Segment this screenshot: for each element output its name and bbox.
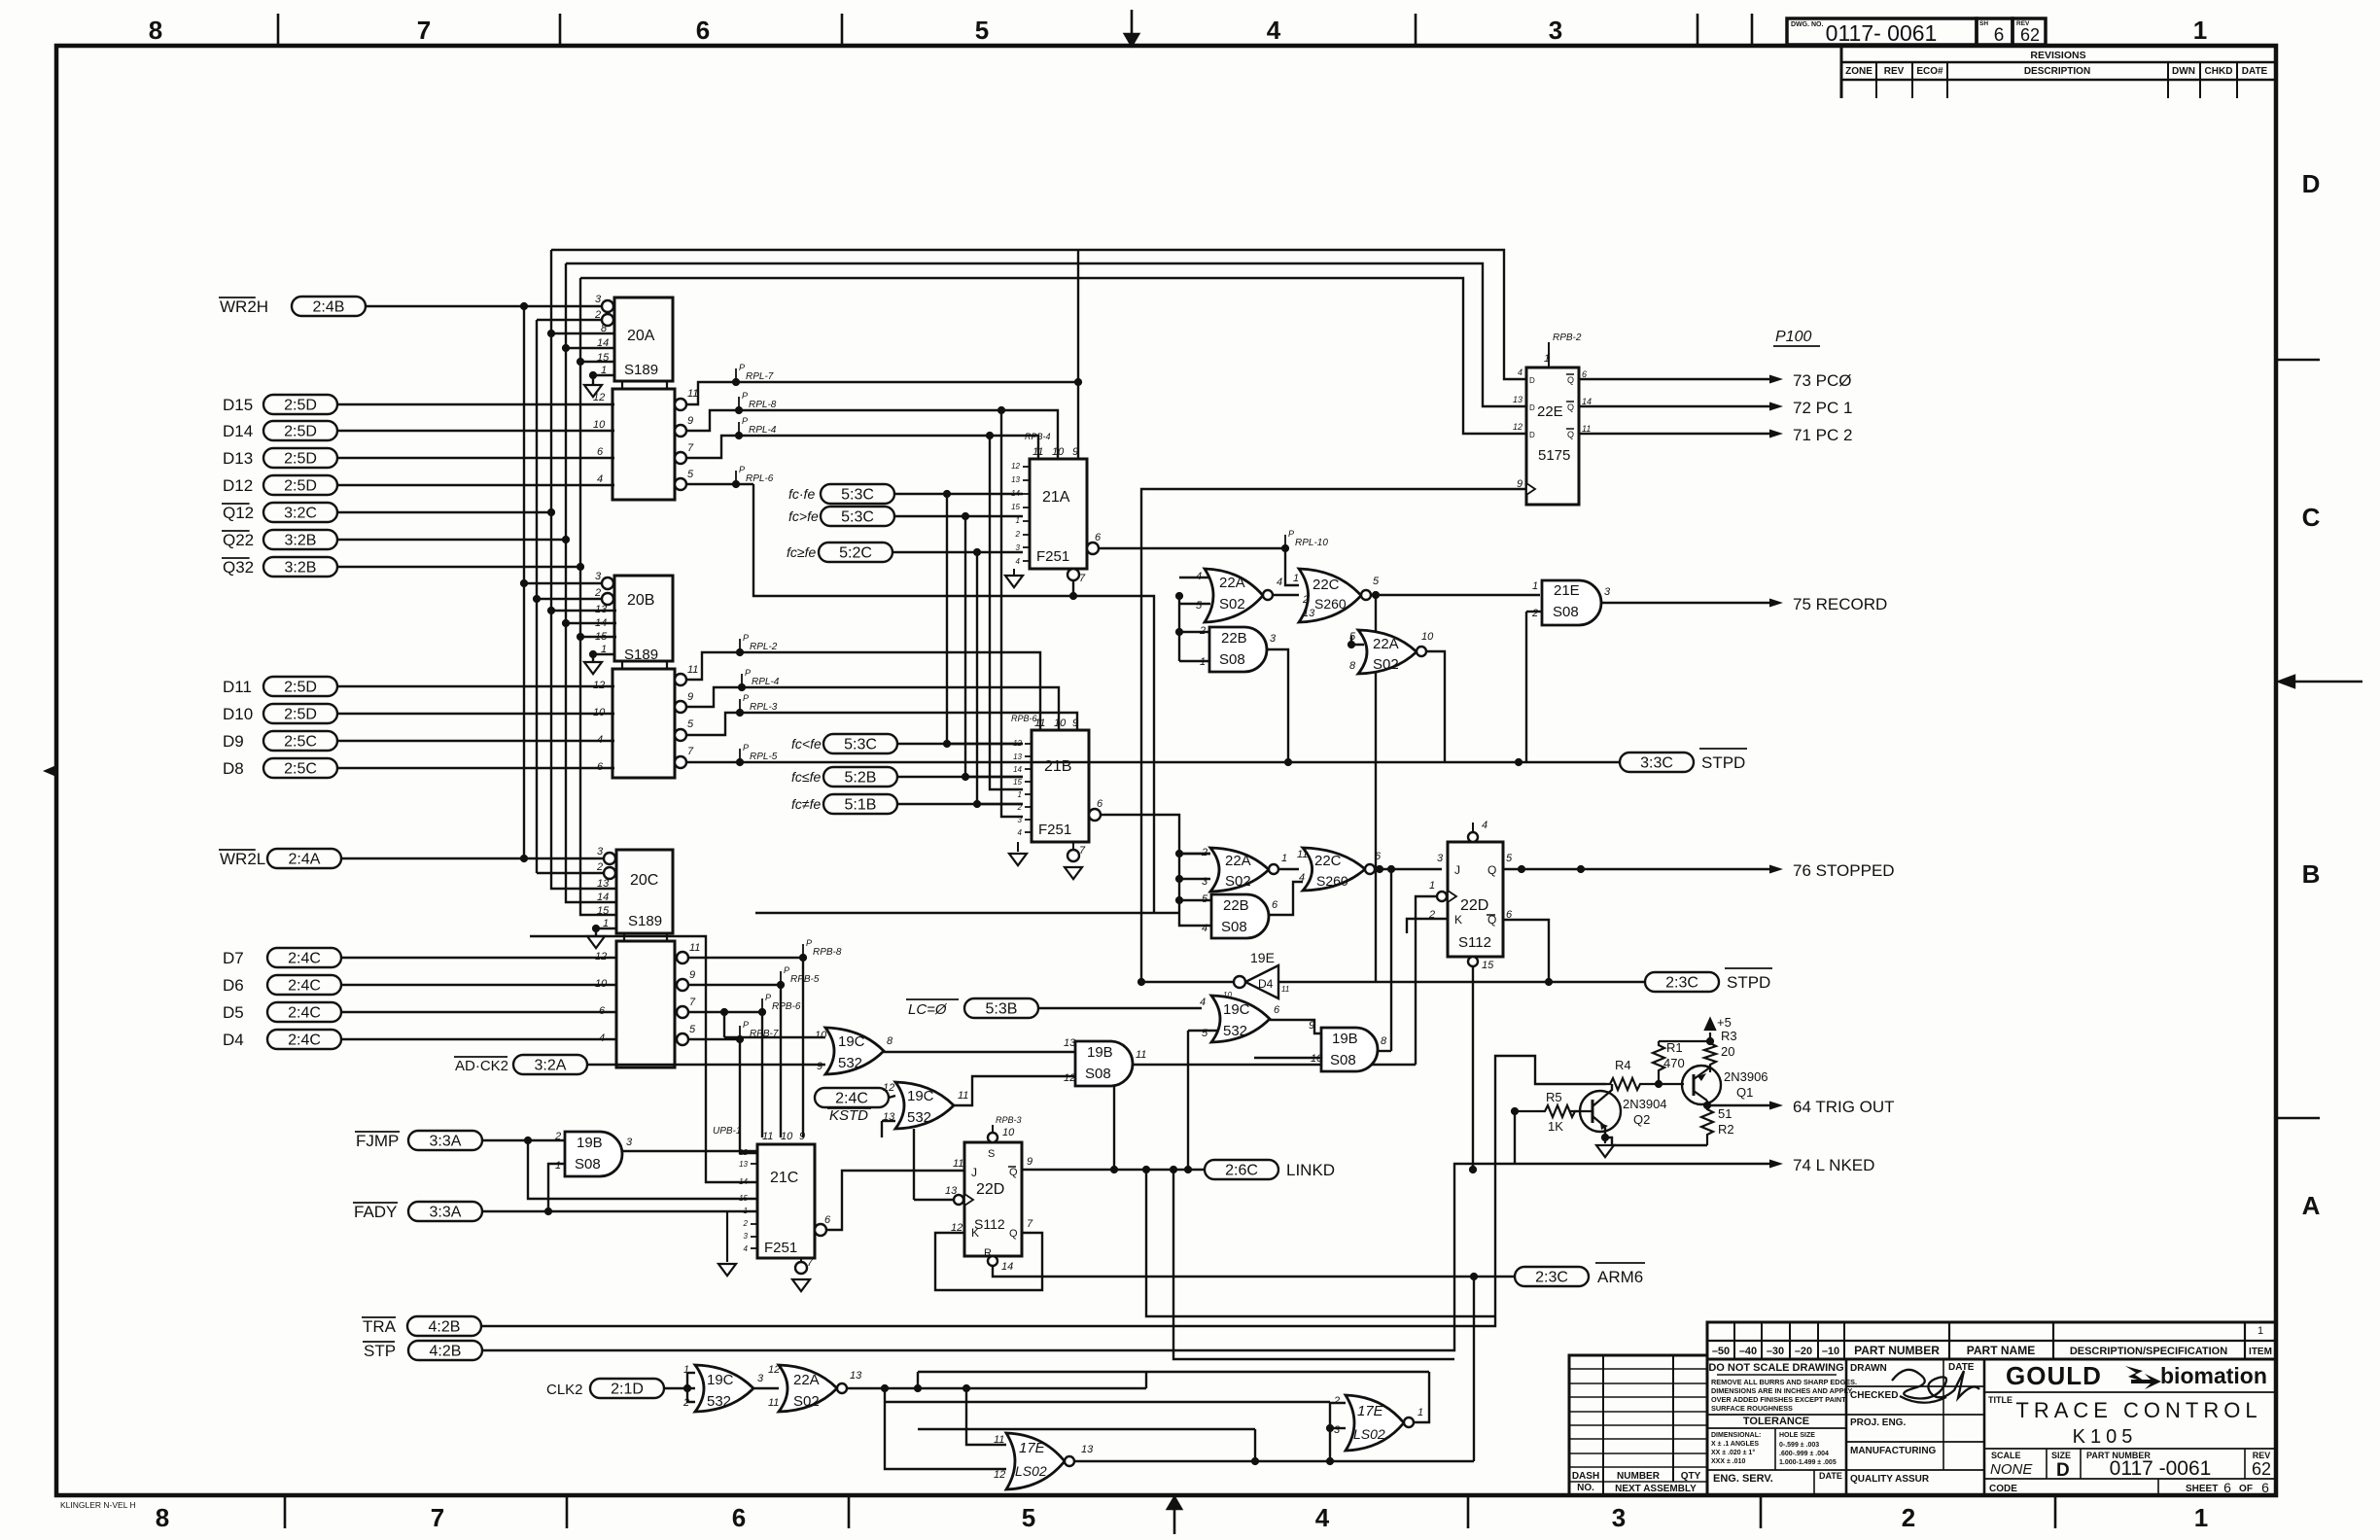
- svg-text:ZONE: ZONE: [1845, 66, 1872, 77]
- wire 22C output to 21E.1: [1371, 594, 1540, 596]
- svg-text:11: 11: [762, 1131, 773, 1142]
- svg-text:QTY: QTY: [1681, 1471, 1701, 1482]
- svg-text:15: 15: [739, 1194, 748, 1203]
- svg-text:4: 4: [1200, 997, 1206, 1008]
- svg-text:OVER ADDED FINISHES EXCEPT PAI: OVER ADDED FINISHES EXCEPT PAINT.: [1711, 1395, 1847, 1404]
- svg-text:KSTD: KSTD: [829, 1107, 868, 1124]
- svg-text:P: P: [806, 938, 812, 948]
- svg-text:4: 4: [744, 1244, 749, 1253]
- IC 22D S112 (upper flip-flop): [1448, 842, 1503, 957]
- svg-text:2:4C: 2:4C: [835, 1091, 868, 1107]
- 20C output pin 11 bubble: [677, 952, 688, 963]
- svg-text:74 L NKED: 74 L NKED: [1793, 1156, 1874, 1174]
- svg-text:62: 62: [2252, 1459, 2271, 1479]
- svg-text:11: 11: [953, 1158, 963, 1170]
- IC 20C S189 (upper box): [616, 850, 673, 933]
- svg-text:S02: S02: [793, 1393, 820, 1410]
- IC 21C F251: [757, 1144, 815, 1258]
- svg-text:DIMENSIONS ARE IN INCHES AND A: DIMENSIONS ARE IN INCHES AND APPLY: [1711, 1386, 1852, 1395]
- svg-text:4: 4: [1277, 577, 1282, 588]
- wire 22D K input elbow: [1407, 919, 1448, 933]
- svg-text:6: 6: [597, 446, 604, 458]
- svg-text:XXX ± .010: XXX ± .010: [1711, 1458, 1745, 1465]
- svg-text:13: 13: [1013, 752, 1022, 761]
- svg-text:11: 11: [687, 664, 698, 676]
- svg-text:20: 20: [1721, 1044, 1734, 1059]
- svg-text:Q: Q: [1487, 863, 1496, 877]
- svg-text:5175: 5175: [1538, 447, 1570, 464]
- svg-text:532: 532: [838, 1055, 862, 1071]
- svg-text:13: 13: [597, 878, 610, 890]
- svg-text:SCALE: SCALE: [1991, 1451, 2021, 1460]
- wire D4: [341, 1038, 616, 1040]
- output 71 PC2: [1579, 433, 1769, 435]
- svg-text:D4: D4: [1258, 977, 1274, 991]
- svg-text:4: 4: [597, 473, 603, 485]
- svg-text:5: 5: [687, 718, 694, 730]
- wire 19C#2.5 input: [1188, 1030, 1217, 1032]
- wire WR2H: [366, 305, 606, 307]
- wire 19B#1 output to 22D clock riser: [1133, 1064, 1416, 1066]
- wire ARM6 net from 22D#2.14: [993, 1266, 1515, 1277]
- title block: GOULD biomation logo: [1984, 1391, 2276, 1393]
- svg-text:2:5D: 2:5D: [284, 478, 317, 495]
- svg-text:S260: S260: [1316, 873, 1348, 889]
- svg-text:3: 3: [595, 571, 602, 582]
- svg-text:9: 9: [799, 1131, 805, 1142]
- svg-text:F251: F251: [1036, 548, 1069, 565]
- svg-text:3: 3: [626, 1137, 633, 1148]
- svg-text:13: 13: [1081, 1444, 1094, 1455]
- svg-text:D13: D13: [223, 449, 253, 468]
- svg-text:2:4C: 2:4C: [288, 978, 321, 995]
- svg-text:3:3C: 3:3C: [1640, 755, 1673, 772]
- wire 19E input: [1278, 981, 1376, 983]
- svg-text:NUMBER: NUMBER: [1617, 1471, 1661, 1482]
- svg-text:P: P: [784, 965, 789, 975]
- svg-text:7: 7: [687, 442, 694, 454]
- wire D15: [337, 403, 614, 405]
- svg-text:D9: D9: [223, 732, 244, 751]
- svg-text:5: 5: [687, 469, 694, 480]
- svg-text:3: 3: [1016, 543, 1021, 552]
- IC 21A F251: [1030, 459, 1087, 569]
- svg-text:8: 8: [1349, 660, 1356, 672]
- transistor Q2 2N3904: [1580, 1091, 1621, 1132]
- svg-text:+5: +5: [1717, 1015, 1732, 1030]
- svg-text:1: 1: [1532, 580, 1538, 592]
- wire run y=939 to gate row 2: [755, 912, 1179, 914]
- svg-text:9: 9: [689, 969, 695, 981]
- svg-text:2: 2: [1017, 803, 1023, 812]
- svg-text:NO.: NO.: [1577, 1483, 1594, 1493]
- svg-text:S02: S02: [1225, 873, 1251, 890]
- connector bubble 2:6C LINKD: [1205, 1160, 1278, 1179]
- svg-text:13: 13: [1303, 608, 1315, 619]
- gate 22A S02 (NOR) #2 row1: [1358, 630, 1417, 674]
- svg-text:DATE: DATE: [1948, 1362, 1975, 1373]
- IC 20C S189 (lower box): [616, 941, 675, 1067]
- svg-text:11: 11: [768, 1397, 779, 1409]
- wire 22A#2 output down to STPD rail: [1426, 651, 1445, 762]
- wire FADY branch to 19B#2.1: [548, 1164, 565, 1211]
- neck: [623, 933, 625, 941]
- connector bubble 2:4C / KSTD: [815, 1088, 889, 1107]
- svg-text:S08: S08: [1221, 919, 1247, 935]
- wire y1411 return rail: [918, 1371, 1429, 1373]
- wire 17E#1 output 13 rail to ARM6 riser: [1074, 1460, 1474, 1462]
- svg-text:0117- 0061: 0117- 0061: [1826, 20, 1938, 46]
- svg-text:11: 11: [958, 1090, 968, 1102]
- wire to 20C pin 2: [537, 872, 605, 874]
- svg-text:LC=Ø: LC=Ø: [908, 1001, 948, 1018]
- svg-text:SIZE: SIZE: [2051, 1451, 2071, 1460]
- svg-text:22D: 22D: [976, 1181, 1004, 1198]
- svg-text:TRACE CONTROL: TRACE CONTROL: [2015, 1398, 2261, 1422]
- svg-text:11: 11: [1582, 424, 1591, 434]
- wire bundle vertical 4 (Q22 net): [566, 263, 616, 902]
- svg-text:RPB-4: RPB-4: [1025, 432, 1051, 441]
- svg-text:2:5C: 2:5C: [284, 734, 317, 751]
- svg-text:5:3C: 5:3C: [844, 737, 877, 753]
- svg-text:3: 3: [744, 1232, 749, 1241]
- svg-text:J: J: [1454, 863, 1460, 877]
- wire 19C#3.13 input: [882, 1120, 895, 1122]
- svg-text:15: 15: [1482, 960, 1494, 971]
- svg-text:D14: D14: [223, 422, 253, 440]
- wire R5 left junction: [1515, 1110, 1541, 1112]
- svg-text:3: 3: [597, 846, 604, 857]
- svg-text:3:2A: 3:2A: [535, 1058, 567, 1074]
- svg-text:F251: F251: [764, 1240, 797, 1256]
- svg-text:7: 7: [1079, 845, 1086, 857]
- wire 22A row2 out: [1278, 868, 1299, 870]
- title block: drawing number box 0117-0061 SH 6 REV 62: [1787, 18, 1977, 45]
- wire Q32: [337, 566, 580, 568]
- svg-text:2:5D: 2:5D: [284, 424, 317, 440]
- svg-text:2: 2: [1428, 909, 1435, 921]
- svg-text:DATE: DATE: [2242, 66, 2268, 77]
- svg-text:RPL-7: RPL-7: [746, 371, 774, 382]
- svg-text:4: 4: [1518, 367, 1522, 377]
- 20C pin 2 input bubble: [604, 867, 615, 879]
- connector bubble 2:3C STPD: [1645, 972, 1719, 992]
- wire to 20B pin 2: [537, 598, 603, 600]
- 20A pin 2 input bubble: [602, 314, 613, 326]
- svg-text:fc≠fe: fc≠fe: [791, 796, 821, 812]
- svg-text:11: 11: [689, 942, 700, 954]
- svg-text:HOLE SIZE: HOLE SIZE: [1779, 1432, 1815, 1439]
- svg-text:12: 12: [739, 1148, 748, 1157]
- svg-text:SH: SH: [1979, 20, 1988, 27]
- svg-text:ARM6: ARM6: [1597, 1268, 1643, 1286]
- svg-text:19C: 19C: [1223, 1001, 1250, 1018]
- 21A output pin 6 bubble: [1087, 542, 1099, 554]
- wire 21E.2 from STPD rail: [1526, 611, 1542, 612]
- svg-text:D: D: [1529, 431, 1535, 439]
- svg-text:7: 7: [417, 16, 431, 45]
- svg-text:K: K: [1454, 913, 1462, 927]
- gate 22A S02 (NOR) row1: [1205, 569, 1263, 622]
- gate 19C 532 (OR) #2: [1211, 996, 1270, 1042]
- transistor Q1 2N3906: [1682, 1066, 1721, 1104]
- svg-text:5:3C: 5:3C: [841, 487, 874, 504]
- gate 22C S260 (NOR) row2: [1303, 848, 1365, 891]
- svg-text:4: 4: [1016, 557, 1021, 566]
- 20B pin 2 input bubble: [602, 593, 613, 605]
- svg-text:D: D: [1529, 403, 1535, 412]
- svg-text:12: 12: [1013, 739, 1022, 748]
- svg-text:3:3A: 3:3A: [430, 1134, 462, 1150]
- svg-text:3: 3: [757, 1373, 764, 1384]
- wire CLK2: [664, 1387, 695, 1389]
- output 73 PC0: [1579, 378, 1769, 380]
- svg-text:LINKD: LINKD: [1286, 1161, 1335, 1179]
- svg-text:2:3C: 2:3C: [1665, 975, 1698, 992]
- svg-text:2:4C: 2:4C: [288, 1032, 321, 1049]
- svg-text:P: P: [745, 668, 751, 678]
- svg-text:10: 10: [1052, 446, 1065, 458]
- svg-text:S02: S02: [1373, 656, 1399, 673]
- title block: scale row: [1984, 1448, 2276, 1450]
- wire Q12: [337, 511, 551, 513]
- wire rail from LINKD junction toward 17E#2: [1173, 1170, 1454, 1359]
- wire 19B#2 output to 21C: [622, 1150, 757, 1152]
- svg-text:–40: –40: [1739, 1346, 1757, 1357]
- svg-text:5:2C: 5:2C: [839, 545, 872, 562]
- svg-text:C: C: [2302, 503, 2321, 532]
- wire D12: [337, 484, 614, 486]
- svg-text:21E: 21E: [1554, 582, 1580, 599]
- svg-text:D12: D12: [223, 476, 253, 495]
- 22D clock pin 1: [1448, 891, 1456, 902]
- 22D preset pin 4: [1468, 832, 1478, 842]
- wire 22D.15 down: [1472, 966, 1474, 1170]
- wire 22A#1 output to 22C: [1273, 594, 1299, 596]
- svg-text:S08: S08: [575, 1156, 601, 1172]
- svg-text:R3: R3: [1721, 1029, 1737, 1043]
- svg-text:2: 2: [596, 861, 603, 873]
- svg-text:7: 7: [431, 1503, 444, 1532]
- wire D8: [337, 767, 614, 769]
- 22D#2 set pin 10: [988, 1133, 997, 1142]
- svg-text:6: 6: [599, 1005, 606, 1017]
- ladder verticals between comparator nets: [946, 494, 948, 744]
- gate 19B S08 (AND) #2: [565, 1132, 622, 1176]
- gate 19C 532 (OR) #4: [695, 1365, 753, 1412]
- wire 21A pin 9 riser: [1077, 250, 1079, 459]
- svg-text:F251: F251: [1038, 822, 1071, 838]
- wire RPB-8 net: 20C.11 down to 21C.9: [688, 958, 803, 1137]
- svg-text:2: 2: [594, 587, 601, 599]
- svg-text:TOLERANCE: TOLERANCE: [1743, 1416, 1809, 1427]
- signature scribble: [1892, 1370, 1979, 1403]
- wire drop to 17E#1 pin 12: [885, 1388, 1006, 1469]
- svg-text:UPB-1: UPB-1: [713, 1126, 741, 1137]
- svg-text:3: 3: [1018, 816, 1023, 824]
- gate 22B S08 (AND) row2: [1211, 894, 1269, 938]
- svg-text:RPL-5: RPL-5: [750, 752, 778, 762]
- ground left of 21B: [1017, 842, 1019, 852]
- svg-text:–30: –30: [1767, 1346, 1784, 1357]
- svg-text:KLINGLER N-VEL H: KLINGLER N-VEL H: [60, 1500, 136, 1510]
- svg-text:12: 12: [593, 392, 605, 403]
- svg-text:FADY: FADY: [354, 1203, 397, 1221]
- svg-text:51: 51: [1718, 1106, 1732, 1121]
- title block: main box: [1707, 1359, 2276, 1495]
- output 64 TRIG OUT: [1707, 1104, 1769, 1106]
- wire bundle vertical 3 (Q12 net): [551, 250, 616, 889]
- wire D7: [341, 957, 616, 959]
- svg-text:DWN: DWN: [2172, 66, 2195, 77]
- svg-text:10: 10: [1054, 717, 1067, 729]
- svg-text:P: P: [739, 465, 745, 474]
- svg-text:2N3906: 2N3906: [1724, 1069, 1768, 1084]
- svg-text:2:4A: 2:4A: [289, 852, 321, 868]
- wire RPL-5 / STPD net: 20B.7 to 3:3C bubble: [686, 761, 1620, 763]
- 20A output pin 7 bubble: [675, 452, 686, 464]
- svg-text:FJMP: FJMP: [356, 1132, 399, 1150]
- svg-text:22A: 22A: [793, 1372, 820, 1388]
- resistor R5 1K: [1541, 1105, 1579, 1117]
- wire drop from 22A#3 run at x1179: [1145, 1372, 1147, 1388]
- svg-text:2: 2: [1302, 594, 1309, 606]
- svg-text:DWG. NO.: DWG. NO.: [1791, 21, 1823, 28]
- svg-text:RPB-5: RPB-5: [790, 974, 820, 985]
- 20C output pin 7 bubble: [677, 1006, 688, 1018]
- wire: [894, 493, 1023, 495]
- svg-text:RPB-8: RPB-8: [813, 947, 842, 958]
- 20B output pin 7 bubble: [675, 756, 686, 768]
- revisions table: [1840, 46, 1843, 98]
- svg-text:11: 11: [1281, 985, 1289, 994]
- svg-text:13: 13: [595, 604, 608, 615]
- wire 22D clock from 19B#1 output: [1416, 896, 1437, 1065]
- 20A pin 3 input bubble: [602, 300, 613, 312]
- wire 19B#3.10 input: [1254, 1057, 1321, 1059]
- svg-text:S08: S08: [1553, 604, 1579, 620]
- svg-text:2: 2: [554, 1131, 561, 1142]
- wire STP long run to LINKED rail: [482, 1164, 1515, 1350]
- svg-text:8: 8: [149, 16, 162, 45]
- svg-text:8: 8: [601, 323, 608, 334]
- wire R5 to Q2 base: [1570, 1110, 1592, 1112]
- svg-text:Q: Q: [1567, 375, 1574, 385]
- svg-text:3:3A: 3:3A: [430, 1205, 462, 1221]
- gate 22B S08 (AND) row1: [1209, 627, 1267, 672]
- wire Q1 collector to R2 / TRIG OUT: [1706, 1101, 1708, 1105]
- svg-text:X ± .1 ANGLES: X ± .1 ANGLES: [1711, 1441, 1759, 1448]
- svg-text:17E: 17E: [1019, 1440, 1046, 1456]
- wire R4 to Q1 base: [1644, 1083, 1684, 1085]
- svg-text:J: J: [971, 1166, 977, 1179]
- svg-text:RPL-4: RPL-4: [752, 677, 780, 687]
- svg-text:2:5C: 2:5C: [284, 761, 317, 778]
- svg-text:13: 13: [1513, 395, 1522, 404]
- gate 19B S08 (AND) #1: [1075, 1041, 1133, 1086]
- svg-text:DESCRIPTION: DESCRIPTION: [2024, 66, 2090, 77]
- svg-text:DATE: DATE: [1819, 1471, 1842, 1481]
- gate 22A S02 (NOR) row2: [1210, 848, 1269, 892]
- svg-text:4: 4: [1202, 923, 1207, 934]
- junction: [520, 579, 528, 587]
- svg-text:10: 10: [781, 1131, 793, 1142]
- svg-text:8: 8: [1381, 1035, 1387, 1047]
- wire 19C#1.10 input from 20C output 7 net: [724, 1036, 825, 1038]
- svg-text:1: 1: [1016, 516, 1020, 525]
- svg-text:1: 1: [1200, 656, 1206, 668]
- svg-text:12: 12: [1011, 462, 1020, 471]
- title block: part number strip: [1707, 1322, 2276, 1359]
- svg-text:2:3C: 2:3C: [1535, 1270, 1568, 1286]
- ground left of 21C: [726, 1211, 728, 1262]
- svg-text:1: 1: [2257, 1325, 2263, 1337]
- svg-text:20C: 20C: [630, 872, 658, 889]
- output 75 RECORD: [1601, 602, 1769, 604]
- svg-text:NONE: NONE: [1990, 1461, 2033, 1478]
- svg-text:12: 12: [1064, 1072, 1075, 1084]
- svg-text:12: 12: [1513, 422, 1522, 432]
- svg-text:6: 6: [597, 761, 604, 773]
- svg-text:64 TRIG OUT: 64 TRIG OUT: [1793, 1098, 1895, 1116]
- wire Q22: [337, 539, 566, 541]
- resistor R4 470: [1606, 1078, 1644, 1090]
- svg-text:S112: S112: [1458, 934, 1491, 951]
- gate 19C 532 (OR) #3: [895, 1082, 954, 1129]
- 20B output pin 9 bubble: [675, 701, 686, 713]
- wire 22E.9 clock from 19E output rail: [1141, 489, 1526, 982]
- svg-text:2:4C: 2:4C: [288, 951, 321, 967]
- svg-text:2N3904: 2N3904: [1623, 1097, 1667, 1111]
- svg-text:22A: 22A: [1219, 575, 1245, 591]
- wire 19E output to 22E clock rail: [1141, 981, 1234, 983]
- svg-text:CHKD: CHKD: [2205, 66, 2233, 77]
- svg-text:9: 9: [1072, 717, 1078, 729]
- svg-text:4: 4: [1018, 828, 1023, 837]
- svg-text:3: 3: [1270, 633, 1277, 645]
- gate 22C S260 (NOR) row1: [1299, 569, 1361, 622]
- svg-text:19B: 19B: [577, 1135, 603, 1151]
- svg-text:9: 9: [1072, 446, 1078, 458]
- svg-text:11: 11: [687, 388, 698, 400]
- svg-text:4: 4: [1315, 1503, 1330, 1532]
- svg-text:10: 10: [1421, 631, 1434, 643]
- wire: [897, 743, 1023, 745]
- wire RPL-6 net: 20A.5: [686, 483, 753, 485]
- wire LINKD net: [1022, 1169, 1205, 1171]
- svg-text:14: 14: [595, 617, 607, 629]
- svg-text:OF: OF: [2239, 1484, 2253, 1494]
- svg-text:fc≥fe: fc≥fe: [787, 544, 816, 560]
- svg-text:14: 14: [597, 892, 609, 903]
- svg-text:13: 13: [945, 1185, 958, 1197]
- svg-text:1: 1: [2194, 1503, 2208, 1532]
- wire bundle vertical 1 (WR2H): [523, 306, 525, 858]
- wire D6: [341, 984, 616, 986]
- svg-text:2:4C: 2:4C: [288, 1005, 321, 1022]
- svg-text:1: 1: [683, 1364, 689, 1376]
- svg-text:19C: 19C: [707, 1372, 734, 1388]
- svg-text:D: D: [1529, 376, 1535, 385]
- wire WR2L: [341, 857, 604, 859]
- svg-text:11: 11: [994, 1434, 1004, 1446]
- svg-text:470: 470: [1663, 1056, 1685, 1070]
- svg-text:20A: 20A: [627, 328, 655, 344]
- svg-text:21C: 21C: [770, 1170, 798, 1186]
- IC 21B F251: [1032, 730, 1089, 842]
- svg-text:K105: K105: [2073, 1426, 2138, 1448]
- svg-text:4:2B: 4:2B: [430, 1344, 462, 1360]
